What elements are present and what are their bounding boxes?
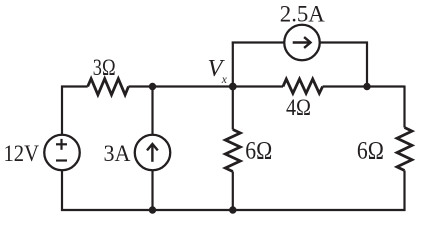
wire bottom bus (61, 209, 406, 211)
svg-text:2.5A: 2.5A (280, 2, 325, 28)
svg-text:12V: 12V (4, 141, 40, 167)
node Vx label (208, 55, 228, 86)
current source I2 2.5A (284, 25, 320, 61)
node bottom junction under 6ohm (229, 206, 236, 213)
wire 3A branch upper (151, 87, 153, 136)
wire right vertical upper (403, 86, 405, 128)
wire loop top left segment (232, 41, 284, 43)
wire left vertical upper (61, 86, 63, 136)
wire Vx branch upper (232, 87, 234, 130)
wire right vertical lower (403, 171, 405, 212)
svg-text:6Ω: 6Ω (245, 136, 272, 165)
resistor R3 6ohm middle (225, 130, 240, 172)
wire loop left vertical (232, 42, 234, 87)
node junction after 3ohm (149, 83, 156, 90)
wire top bus right segment (323, 85, 405, 87)
svg-text:x: x (221, 74, 228, 86)
resistor R1 3ohm (88, 79, 129, 95)
voltage source U1 12V (44, 135, 80, 171)
resistor R2 4ohm (283, 79, 323, 93)
svg-text:3Ω: 3Ω (93, 55, 116, 81)
wire 3A branch lower (151, 170, 153, 210)
svg-text:6Ω: 6Ω (357, 136, 384, 165)
svg-text:3A: 3A (104, 141, 131, 167)
wire top bus left segment (61, 85, 88, 87)
node Vx junction (229, 83, 237, 91)
resistor R4 6ohm right (397, 128, 412, 171)
wire Vx branch lower (232, 172, 234, 211)
current source I1 3A (135, 135, 171, 171)
wire left vertical lower (61, 170, 63, 211)
svg-text:4Ω: 4Ω (286, 95, 311, 121)
wire loop right vertical (366, 42, 368, 87)
node junction after 4ohm (363, 83, 370, 90)
node bottom junction under 3A (149, 206, 156, 213)
wire loop top right segment (320, 41, 368, 43)
wire top bus middle segment (129, 85, 284, 87)
